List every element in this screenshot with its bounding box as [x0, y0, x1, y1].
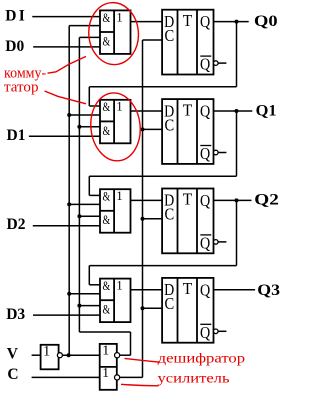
svg-text:Q: Q	[200, 233, 211, 252]
svg-text:D3: D3	[6, 306, 25, 323]
svg-text:1: 1	[102, 344, 109, 359]
svg-text:D0: D0	[5, 38, 24, 55]
svg-text:Q: Q	[200, 12, 211, 31]
svg-text:Q3: Q3	[257, 282, 280, 299]
svg-text:Q2: Q2	[254, 192, 279, 209]
svg-text:Q: Q	[200, 191, 211, 210]
svg-text:Q: Q	[200, 102, 211, 121]
svg-text:Q: Q	[200, 55, 211, 74]
svg-text:T: T	[183, 11, 193, 30]
svg-text:1: 1	[116, 279, 122, 293]
svg-text:C: C	[165, 294, 175, 313]
svg-text:&: &	[103, 99, 111, 114]
svg-text:T: T	[183, 100, 193, 119]
svg-text:D2: D2	[7, 216, 26, 233]
svg-text:1: 1	[116, 10, 122, 24]
svg-text:Q: Q	[200, 323, 211, 342]
svg-text:&: &	[103, 123, 111, 138]
svg-text:C: C	[165, 115, 175, 134]
svg-text:T: T	[183, 279, 193, 298]
svg-text:&: &	[103, 189, 111, 204]
svg-text:V: V	[7, 346, 19, 363]
svg-text:&: &	[103, 10, 111, 25]
svg-text:дешифратор: дешифратор	[158, 351, 246, 366]
svg-text:&: &	[103, 302, 111, 317]
svg-text:C: C	[165, 26, 175, 45]
svg-text:C: C	[7, 366, 18, 383]
svg-text:Q0: Q0	[254, 13, 278, 30]
svg-text:&: &	[103, 33, 111, 48]
svg-text:D1: D1	[7, 127, 26, 144]
svg-text:Q: Q	[200, 280, 211, 299]
svg-text:Q1: Q1	[256, 103, 277, 120]
svg-text:Q: Q	[200, 144, 211, 163]
svg-text:DI: DI	[5, 8, 25, 25]
svg-text:T: T	[183, 190, 193, 209]
svg-text:1: 1	[102, 365, 109, 380]
svg-text:усилитель: усилитель	[158, 371, 230, 386]
svg-text:&: &	[103, 278, 111, 293]
svg-text:&: &	[103, 212, 111, 227]
svg-text:C: C	[165, 205, 175, 224]
svg-text:1: 1	[43, 344, 50, 360]
svg-text:1: 1	[116, 100, 122, 114]
svg-text:татор: татор	[4, 79, 39, 95]
svg-text:1: 1	[116, 189, 122, 203]
